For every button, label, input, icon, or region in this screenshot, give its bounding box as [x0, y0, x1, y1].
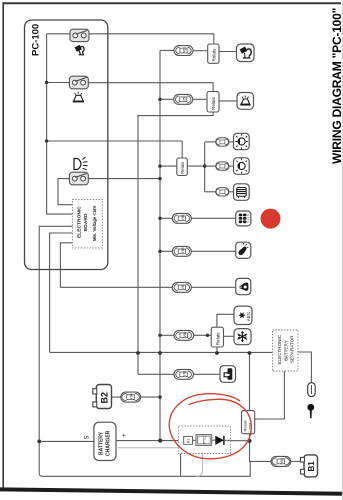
- svg-text:SEPARATOR: SEPARATOR: [290, 335, 295, 363]
- wire connector C7 to relay K4 coil: [194, 334, 212, 336]
- connector C3c: [216, 188, 229, 196]
- connector C5 (Y63): [172, 246, 191, 256]
- wire relay K2 output to beacon icon box: [219, 100, 237, 102]
- svg-text:0 1 2 3: 0 1 2 3: [246, 214, 250, 222]
- wire connector C6 to horn icon box row6: [191, 286, 235, 288]
- svg-text:Y61: Y61: [183, 47, 187, 53]
- svg-text:BATTERY: BATTERY: [283, 340, 288, 361]
- wire relay K4 bottom to supply line: [216, 347, 218, 353]
- junction bus B / charger plus wire: [158, 439, 162, 443]
- connector C7 (V60): [174, 330, 194, 340]
- wire connector C3b to low beam icon box: [229, 165, 234, 167]
- wire main bus B top corner to connector C1: [160, 49, 174, 51]
- page bottom scan band: [0, 487, 343, 495]
- diode D1: [215, 436, 230, 445]
- key pin symbol: [307, 404, 314, 418]
- junction charger S wire / vertical: [37, 440, 41, 444]
- svg-text:CHARGER: CHARGER: [106, 430, 112, 456]
- wire electronic board to supply line vertical: [50, 233, 73, 352]
- svg-text:B1: B1: [307, 461, 316, 472]
- junction relay K4 coil wire: [206, 334, 209, 337]
- svg-text:V61: V61: [183, 370, 187, 376]
- battery B2: [93, 385, 112, 409]
- wire charger S terminal: [39, 440, 94, 442]
- icon box fan resistor block (row 4): [236, 211, 251, 226]
- page frame top border: [3, 2, 342, 4]
- connector C4 (Y62): [172, 213, 191, 223]
- wire electronic board to battery charger vertical (x=39.2): [39, 226, 72, 476]
- svg-text:Relais: Relais: [180, 161, 185, 174]
- junction bus B / switch S3 wire: [158, 177, 161, 180]
- relay K3 (lights): [177, 158, 188, 176]
- wire relay K2 bottom to vertical feeder x=138: [138, 112, 213, 374]
- connector C8 (V6): [174, 369, 194, 379]
- wire charger plus terminal to bus junction and R1: [116, 440, 184, 442]
- PTC module (dashed box): [179, 426, 231, 454]
- icon box high beam (row 3a): [234, 133, 250, 149]
- wire connector C3c to heater icon box: [229, 191, 234, 193]
- wire branch to connector C3a: [205, 141, 216, 143]
- junction lamp branch node: [203, 164, 206, 167]
- wire relay K4 top to AES box: [217, 314, 234, 327]
- wire battery separator bottom to relay K5: [255, 371, 285, 419]
- wire switch S3 right to main bus B: [88, 178, 160, 180]
- wire connector C1 to relay K1 coil: [193, 50, 208, 52]
- svg-text:Min. Voltage <18V: Min. Voltage <18V: [92, 205, 97, 241]
- wire bus B to connector C7: [160, 334, 174, 336]
- wire bus B to relay K3 coil: [160, 165, 177, 167]
- svg-text:PTC: PTC: [203, 436, 207, 444]
- wire relay K5 bottom to PTC output junction then to connector C9: [250, 434, 272, 462]
- PTC thermistor: [196, 435, 212, 446]
- wire switch S3 left to electronic board: [58, 179, 72, 205]
- wire main bus B vertical (x=160): [159, 50, 161, 440]
- wire bottom return line to B1 junction: [43, 461, 251, 476]
- connector C3a: [216, 138, 229, 146]
- svg-text:S: S: [85, 435, 91, 439]
- icon box air conditioning snowflake: [234, 329, 251, 345]
- wire connector C5 to sprayer icon box: [191, 250, 235, 252]
- junction relay K4 bottom / supply line: [215, 351, 219, 355]
- wire connector C2 to relay K2 coil: [193, 98, 207, 100]
- junction bus B / connector C5: [158, 250, 161, 253]
- wire PTC module output to junction: [231, 440, 250, 442]
- svg-text:Relais: Relais: [211, 97, 216, 110]
- wire branch to connector C3c: [205, 191, 216, 193]
- icon box radio socket (row 8): [220, 366, 236, 383]
- wire connector C4 to fan icon box: [191, 217, 235, 219]
- junction bus B / connector C10: [158, 395, 161, 398]
- junction bus B / connector C4: [158, 217, 161, 220]
- svg-text:V60: V60: [183, 332, 187, 338]
- annotation red circle (hand drawn): [169, 394, 251, 459]
- icon box hand sprayer (row 5): [236, 242, 251, 258]
- icon box heater grid (row 3c): [234, 184, 250, 201]
- wire connector C10 to bus B: [141, 396, 160, 398]
- svg-text:BOARD: BOARD: [83, 213, 89, 231]
- battery B1: [301, 455, 318, 477]
- svg-text:70A: 70A: [248, 422, 253, 429]
- junction bus A / switch S2: [45, 81, 48, 84]
- svg-text:ELECTRONIC: ELECTRONIC: [277, 334, 282, 364]
- wire relay K1 output to horn icon box: [219, 51, 237, 53]
- svg-text:R1: R1: [186, 439, 190, 443]
- svg-text:V5: V5: [182, 97, 186, 101]
- wire main supply line y=353: [50, 351, 273, 353]
- wire switch S1 left to vertical bus A: [47, 33, 70, 35]
- page right edge line: [341, 0, 343, 500]
- wire feeder x=138 to connector C8: [138, 373, 174, 375]
- battery separator (dashed box): [273, 330, 299, 371]
- wire PTC to diode D1: [212, 439, 216, 441]
- icon box horn loudspeaker (row 1): [237, 44, 255, 62]
- junction bus B / relay K3 coil: [158, 164, 161, 167]
- svg-text:Y62: Y62: [181, 214, 185, 220]
- enclosure PC-100 control board: [25, 20, 108, 270]
- switch S2 (beacon): [69, 76, 88, 89]
- svg-text:BATTERY: BATTERY: [99, 431, 105, 455]
- connector C9 (Y64): [271, 456, 291, 466]
- wire R1 to PTC: [193, 439, 197, 441]
- icon box low beam (row 3b): [234, 158, 250, 175]
- connector C1 (Y61): [174, 46, 193, 56]
- switch S1 (horn): [70, 29, 89, 41]
- svg-text:PC-100: PC-100: [31, 24, 42, 56]
- ghost gray outline near PTC module: [118, 448, 203, 477]
- junction bus B / connector C2: [158, 98, 161, 101]
- junction bus B / connector C7: [158, 334, 161, 337]
- svg-text:Y64: Y64: [280, 458, 284, 464]
- battery charger: [94, 422, 116, 460]
- svg-text:Relais: Relais: [212, 48, 217, 61]
- wire connector C8 to radio icon box: [194, 373, 221, 375]
- svg-text:V6: V6: [181, 285, 185, 289]
- icon beacon (switch S2): [73, 92, 84, 102]
- icon box horn klaxon (row 6): [236, 278, 251, 294]
- wire B2 to connector C10: [112, 396, 121, 398]
- wire connector C9 to battery B1: [291, 460, 301, 462]
- wire supply line down to relay K5 (70A) top: [249, 353, 251, 411]
- relay K5 70A: [242, 411, 255, 434]
- svg-text:Y60: Y60: [130, 393, 134, 399]
- wire battery separator right to key: [298, 352, 311, 383]
- svg-text:WIRING DIAGRAM "PC-100": WIRING DIAGRAM "PC-100": [330, 8, 343, 164]
- wire switch S2 left to bus A: [47, 82, 70, 84]
- wire relay K3 output to lamp branch node: [187, 165, 204, 167]
- electronic board (dashed) inside PC-100: [72, 199, 102, 248]
- svg-text:+: +: [121, 433, 128, 437]
- icon microphone (switch S1): [75, 45, 84, 55]
- wire PTC dashed box bottom stub: [180, 453, 182, 476]
- connector C10 (Y60): [121, 392, 141, 402]
- wire vertical bus A (switch chain) into electronic board: [47, 34, 73, 214]
- junction supply line / relay K5: [248, 351, 252, 355]
- wire switch S1 right to relay K1 top: [89, 34, 214, 44]
- wire bus B to connector C4: [160, 217, 172, 219]
- junction feeder x=138 / supply line: [136, 351, 140, 355]
- relay K4 (air conditioning): [211, 327, 223, 347]
- relay K2: [207, 92, 219, 113]
- wire branch to connector C3b: [205, 165, 216, 167]
- page frame left border: [2, 2, 4, 488]
- resistor R1: [184, 436, 193, 444]
- switch S3 (work lights): [69, 172, 88, 185]
- wire bus B to connector C2: [160, 98, 174, 100]
- wire bus A to relay K3 top (lights control): [47, 141, 183, 158]
- svg-text:AES: AES: [246, 312, 251, 321]
- wire connector C3a to high beam icon box: [229, 141, 234, 143]
- svg-text:B2: B2: [99, 392, 109, 404]
- junction relay K5 / PTC output: [247, 439, 251, 443]
- svg-text:Y63: Y63: [181, 247, 185, 253]
- connector C6 (V6): [172, 282, 191, 292]
- connector C3b: [216, 162, 229, 170]
- svg-text:Relais: Relais: [215, 332, 220, 345]
- icon box AES: [234, 306, 252, 324]
- relay K1: [208, 44, 219, 63]
- key switch symbol: [308, 383, 316, 397]
- svg-text:ELECTRONIC: ELECTRONIC: [77, 206, 83, 238]
- connector C2 (V5): [174, 94, 193, 104]
- wire bus B to connector C5: [160, 250, 172, 252]
- wire electronic board lower output to connector C6: [60, 243, 172, 287]
- icon headlight (switch S3): [74, 157, 88, 170]
- junction bus A / lights control wire: [45, 139, 48, 142]
- icon box rotating beacon (row 2): [237, 93, 254, 110]
- wire lamp branch vertical: [204, 142, 206, 192]
- junction bus B / supply line: [158, 351, 162, 355]
- annotation red dot: [261, 209, 281, 229]
- wire switch S2 right to relay K2 top: [88, 83, 213, 92]
- wire relay K4 output to air conditioning box: [224, 335, 235, 337]
